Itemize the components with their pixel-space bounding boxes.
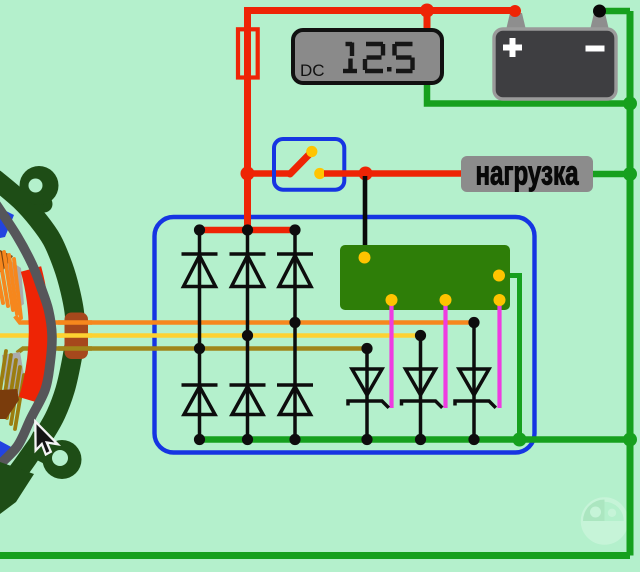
trio top nodes: [361, 317, 479, 354]
alternator G1: [0, 166, 92, 514]
load label: [461, 155, 593, 193]
green wire bottom horizontal: [0, 552, 630, 559]
wire phase yellow: [0, 333, 421, 338]
wires over grommet: [58, 323, 92, 349]
trio diode 3: [455, 323, 496, 440]
bridge top nodes: [194, 224, 301, 235]
bridge column 2: [230, 230, 266, 440]
svg-text:DC: DC: [300, 61, 325, 80]
stator pole red arc: [29, 269, 39, 400]
regulator terminals: [359, 252, 506, 307]
junction green battery bottom: [623, 97, 637, 111]
wire red switch to load: [324, 170, 462, 177]
regulator U1: [340, 245, 510, 310]
battery GB1: [494, 13, 616, 99]
stator pole blue lower: [0, 441, 15, 470]
wire red to switch: [248, 170, 292, 177]
wire magenta 3: [497, 300, 501, 408]
bridge bottom nodes: [194, 434, 301, 445]
junction green load: [623, 167, 637, 181]
housing bottom-left wedge: [0, 462, 34, 514]
wire green load to margin: [593, 171, 630, 178]
phase nodes: [194, 317, 301, 354]
voltmeter green stub: [427, 80, 630, 104]
svg-text:нагрузка: нагрузка: [475, 155, 579, 193]
voltmeter P1: [293, 30, 442, 83]
mouse cursor: [35, 422, 58, 455]
fuse FU1: [238, 29, 258, 77]
junction red to regulator: [359, 167, 373, 181]
regulator green stub: [500, 276, 520, 440]
wire phase orange: [15, 316, 474, 323]
rotor coil lower (olive winding): [0, 351, 27, 429]
trio diode 2: [402, 336, 443, 440]
wire black to regulator: [363, 176, 368, 258]
green wire battery minus: [600, 8, 631, 15]
bridge column 3: [277, 230, 313, 440]
voltmeter red stub: [424, 11, 431, 36]
node battery minus: [593, 5, 606, 18]
stator pole blue upper: [0, 208, 14, 238]
bridge green bus: [196, 436, 630, 443]
housing ear bottom: [28, 440, 82, 479]
wire red vertical from top to bridge: [244, 11, 251, 231]
wire magenta 2: [443, 300, 447, 408]
junction green bus right: [623, 433, 637, 447]
stator yoke gray ring: [0, 204, 52, 466]
rectifier box: [155, 217, 535, 453]
bridge column 1: [182, 230, 218, 440]
green wire right margin vertical: [627, 11, 634, 556]
junction red switch left: [241, 167, 255, 181]
trio diode 1: [348, 349, 389, 440]
junction green regulator: [513, 433, 527, 447]
grommet: [65, 313, 89, 360]
junction red battery plus: [509, 5, 521, 17]
watermark smiley: [583, 500, 626, 543]
rotor coil upper (orange winding): [0, 250, 24, 318]
switch SA1: [274, 139, 344, 190]
wire red top horizontal: [244, 7, 515, 14]
junction red top: [420, 4, 434, 18]
housing ear top: [20, 166, 59, 205]
bridge red bus: [196, 227, 298, 234]
housing ring: [0, 178, 75, 492]
wire phase olive: [17, 349, 367, 354]
wire magenta 1: [389, 300, 393, 408]
trio bottom nodes: [361, 434, 479, 445]
